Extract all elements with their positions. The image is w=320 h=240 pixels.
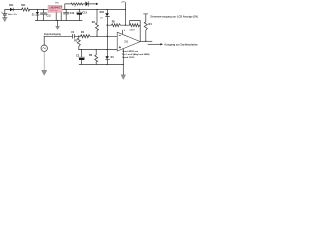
svg-text:LM311: LM311 — [130, 30, 135, 32]
svg-text:5.0V reg: 5.0V reg — [50, 10, 59, 12]
svg-text:D31: D31 — [100, 11, 105, 14]
svg-text:C13: C13 — [82, 12, 87, 15]
svg-text:1: 1 — [122, 49, 123, 51]
svg-text:+5V: +5V — [121, 1, 125, 3]
svg-text:C12: C12 — [70, 12, 75, 15]
svg-text:8: 8 — [124, 30, 125, 32]
svg-text:Impulseingang: Impulseingang — [44, 33, 61, 36]
svg-text:R11: R11 — [21, 4, 26, 7]
svg-text:D11: D11 — [9, 4, 14, 7]
svg-text:C11: C11 — [47, 14, 52, 17]
svg-text:Stand 19/10: Stand 19/10 — [122, 56, 135, 59]
svg-text:5V1: 5V1 — [100, 17, 103, 19]
svg-text:VR1: VR1 — [55, 2, 59, 4]
svg-text:Ausgang zur Zaehlerplatine: Ausgang zur Zaehlerplatine — [164, 43, 198, 47]
svg-text:L1: L1 — [74, 6, 76, 8]
svg-text:Pin 1 an 4 (Abgl und GND): Pin 1 an 4 (Abgl und GND) — [122, 53, 149, 56]
svg-text:Stromversorgung zur LCD Anzeig: Stromversorgung zur LCD Anzeige (5V) — [150, 15, 198, 19]
svg-text:Akku 9V=: Akku 9V= — [8, 13, 18, 16]
svg-text:Vom LM311 out: Vom LM311 out — [122, 50, 138, 53]
